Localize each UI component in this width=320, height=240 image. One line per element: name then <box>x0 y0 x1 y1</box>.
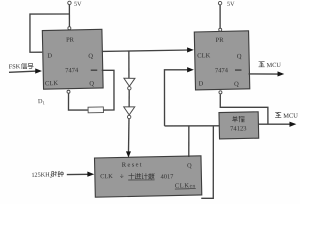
svg-text:7474: 7474 <box>215 67 229 74</box>
svg-text:125KH2: 125KH2 <box>31 171 52 179</box>
svg-text:7474: 7474 <box>65 67 79 74</box>
svg-text:Q: Q <box>234 81 239 88</box>
svg-text:4017: 4017 <box>161 173 175 180</box>
svg-text:Q: Q <box>88 53 93 60</box>
svg-text:PR: PR <box>66 37 75 44</box>
svg-text:D1: D1 <box>38 98 45 105</box>
svg-text:÷: ÷ <box>120 173 124 181</box>
svg-text:Q: Q <box>237 53 242 60</box>
svg-text:Q: Q <box>89 80 94 87</box>
svg-text:D: D <box>47 53 52 60</box>
svg-text:Q: Q <box>187 162 192 169</box>
svg-text:CLKen: CLKen <box>175 182 196 189</box>
svg-text:MCU: MCU <box>267 62 282 69</box>
svg-text:PR: PR <box>216 37 225 44</box>
svg-text:CLK: CLK <box>45 80 58 87</box>
svg-text:5V: 5V <box>227 1 235 8</box>
svg-text:MCU: MCU <box>283 113 298 120</box>
svg-text:Reset: Reset <box>122 161 143 168</box>
svg-text:74123: 74123 <box>230 125 247 132</box>
svg-text:FSK: FSK <box>9 63 21 70</box>
svg-text:CLK: CLK <box>197 52 210 59</box>
svg-text:CLK: CLK <box>100 173 113 180</box>
svg-text:5V: 5V <box>74 1 82 8</box>
svg-text:D: D <box>199 80 204 87</box>
